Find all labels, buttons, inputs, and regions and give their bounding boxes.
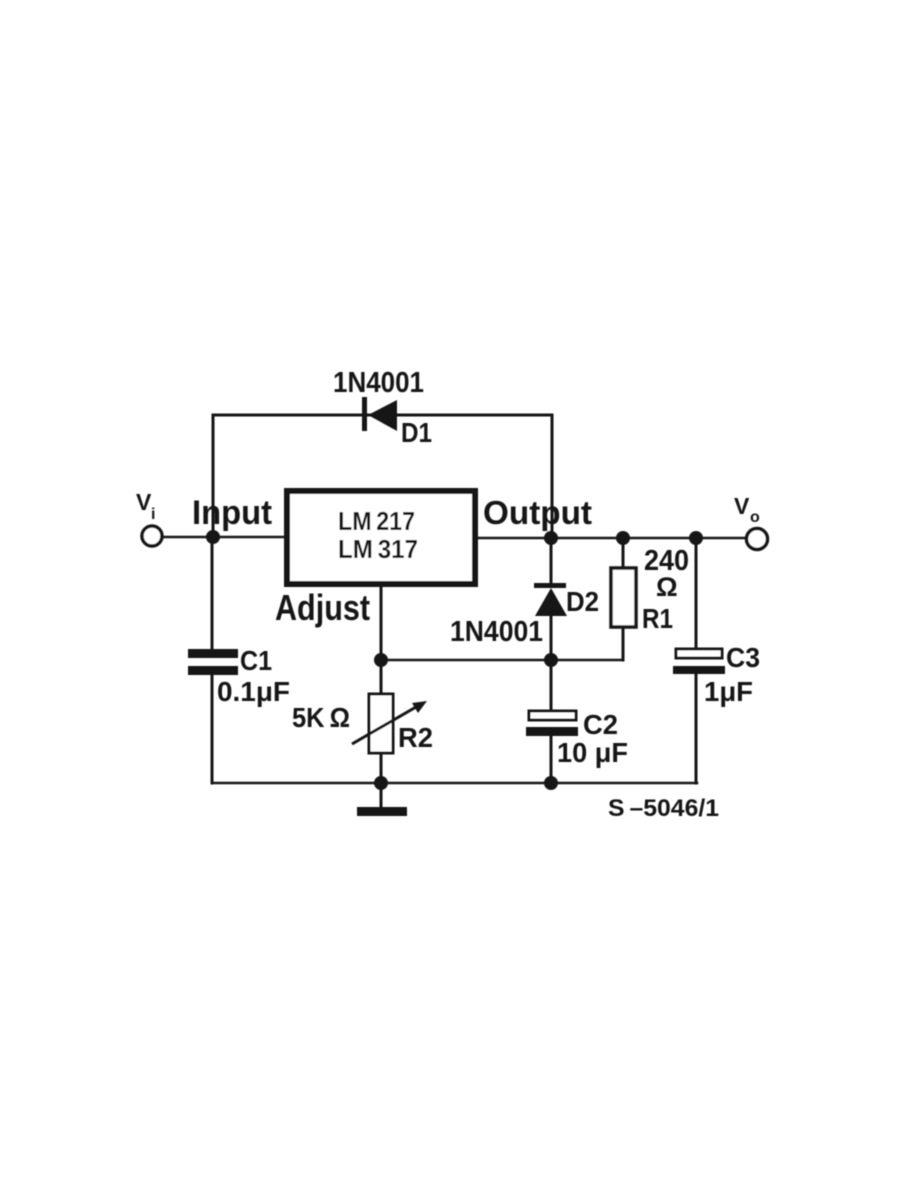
- wire R1 top connection: [622, 538, 625, 568]
- wire D2 anode down to mid rail node: [550, 614, 553, 660]
- label 240: [644, 545, 689, 577]
- wire C3 bottom to bottom rail: [695, 673, 698, 783]
- wire left vertical from top wire to input node: [212, 415, 215, 537]
- node adjust junction: [374, 653, 388, 667]
- node C3 top junction: [689, 531, 703, 545]
- wire right vertical from top wire to output node: [551, 415, 554, 538]
- terminal Vo circle: [747, 529, 768, 550]
- label ohm for R1: [656, 572, 678, 602]
- svg-text:1N4001: 1N4001: [333, 367, 424, 399]
- svg-text:V: V: [734, 493, 750, 519]
- label Adjust: [275, 587, 370, 628]
- resistor R1: [611, 568, 636, 627]
- label C2: [583, 709, 618, 740]
- resistor R2 potentiometer: [352, 694, 427, 753]
- svg-text:Output: Output: [483, 494, 592, 531]
- wire C1 down to bottom rail: [211, 675, 214, 783]
- svg-text:0.1μF: 0.1μF: [217, 676, 290, 707]
- wire mid horizontal rail adjust-to-R1: [381, 659, 623, 662]
- wire Vi terminal to LM box input: [163, 536, 284, 539]
- terminal Vi circle: [142, 526, 162, 546]
- label schematic number S-5046/1: [608, 795, 719, 822]
- label Vo: [734, 493, 760, 526]
- svg-text:D2: D2: [566, 586, 599, 617]
- capacitor C1: [188, 649, 238, 675]
- wire top horizontal (D1 branch): [213, 414, 552, 417]
- wire ground stub: [380, 783, 383, 807]
- wire bottom rail: [212, 782, 697, 785]
- svg-text:5K Ω: 5K Ω: [292, 702, 350, 733]
- node R1 top junction: [616, 531, 630, 545]
- svg-text:LM 217: LM 217: [338, 506, 415, 536]
- svg-text:S –5046/1: S –5046/1: [608, 795, 719, 822]
- wire mid node down to C2 top: [550, 660, 553, 712]
- svg-text:C1: C1: [240, 645, 272, 676]
- node D2 bottom junction: [544, 653, 558, 667]
- diode D1: [362, 397, 397, 431]
- label Vi: [136, 489, 155, 523]
- label R2: [398, 722, 433, 753]
- svg-text:10 μF: 10 μF: [557, 737, 628, 768]
- node input junction: [206, 530, 220, 544]
- svg-text:Input: Input: [192, 494, 272, 532]
- label C3: [726, 642, 760, 673]
- node output junction at D1/D2: [544, 531, 558, 545]
- svg-text:i: i: [151, 506, 155, 523]
- label D2: [566, 586, 599, 617]
- op-amp U1 regulator box LM217/LM317: [287, 491, 475, 584]
- wire C2 bottom to bottom rail: [550, 735, 553, 783]
- wire output node down to D2 cathode: [550, 538, 553, 584]
- svg-text:C2: C2: [583, 709, 618, 740]
- label R1: [642, 603, 673, 634]
- svg-text:C3: C3: [726, 642, 760, 673]
- svg-text:R1: R1: [642, 603, 673, 634]
- label D1: [401, 417, 432, 448]
- svg-text:D1: D1: [401, 417, 432, 448]
- label Input: [192, 494, 272, 532]
- wire C3 top connection: [695, 538, 698, 650]
- svg-text:Ω: Ω: [656, 572, 678, 602]
- label Output: [483, 494, 592, 531]
- label 0.1uF: [217, 676, 290, 707]
- svg-text:o: o: [750, 509, 760, 526]
- capacitor C3: [673, 649, 725, 674]
- label C1: [240, 645, 272, 676]
- wire R2 bottom to ground node: [380, 753, 383, 783]
- ground: [357, 807, 407, 816]
- label 1uF: [704, 676, 753, 707]
- label 10 uF: [557, 737, 628, 768]
- label 1N4001 for D1: [333, 367, 424, 399]
- wire input node down to C1: [211, 537, 214, 650]
- wire R1 bottom to mid rail: [622, 627, 625, 660]
- diode D2: [534, 583, 567, 616]
- capacitor C2: [526, 711, 578, 736]
- label 1N4001 for D2: [450, 616, 543, 648]
- svg-text:V: V: [136, 489, 152, 515]
- wire adjust node down to R2 top: [380, 660, 383, 694]
- wire adjust pin down to adjust node: [380, 586, 383, 660]
- svg-text:1N4001: 1N4001: [450, 616, 543, 648]
- svg-text:LM 317: LM 317: [338, 534, 418, 564]
- node C2 bottom junction: [544, 776, 558, 790]
- svg-text:R2: R2: [398, 722, 433, 753]
- label 5K ohm: [292, 702, 350, 733]
- wire LM box output to Vo terminal: [477, 537, 746, 540]
- node ground junction: [374, 776, 388, 790]
- svg-text:1μF: 1μF: [704, 676, 753, 707]
- svg-text:Adjust: Adjust: [275, 587, 370, 628]
